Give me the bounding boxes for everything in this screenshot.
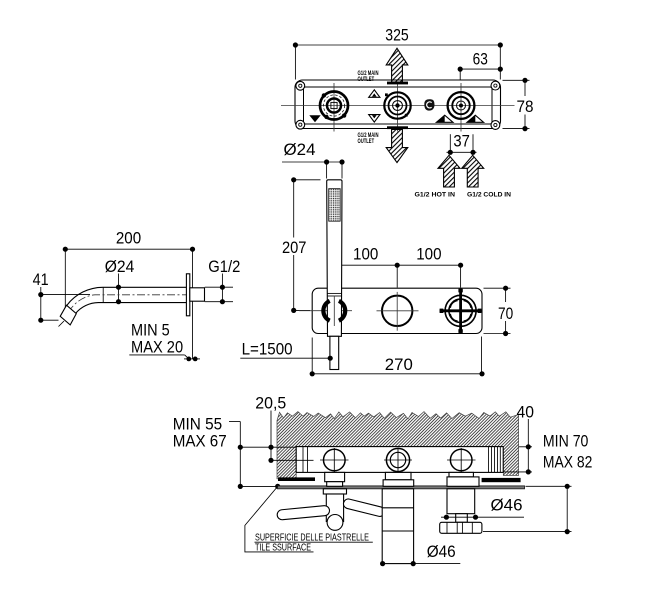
svg-text:41: 41: [33, 270, 49, 289]
valve V2 diverter (top view): [384, 92, 410, 118]
svg-text:270: 270: [385, 355, 413, 374]
svg-text:325: 325: [385, 26, 409, 45]
right stem volume control: [440, 489, 524, 534]
triangle marker V3 right: [467, 115, 484, 122]
spout wall flange: [186, 274, 189, 316]
valve centerline over handle: [333, 296, 335, 327]
svg-text:100: 100: [353, 245, 378, 264]
stem collar center upper: [385, 472, 411, 479]
tile layer left: [278, 477, 315, 481]
valve centerline V2: [397, 83, 399, 132]
corner screw top-right: [491, 81, 500, 90]
svg-text:Ø46: Ø46: [491, 495, 523, 514]
tile surface leader: [245, 486, 314, 552]
dimension 40: [503, 402, 534, 474]
lever arm right: [342, 498, 385, 517]
svg-text:Ø46: Ø46: [427, 542, 456, 561]
left stem lower collar: [323, 489, 346, 494]
dimension 37: [447, 131, 477, 155]
body partition lines: [302, 447, 304, 473]
faceplate outer (top view): [295, 80, 501, 129]
label L=1500: [240, 340, 333, 361]
centerline through holder: [299, 310, 352, 312]
bracket bar above V2: [387, 82, 408, 85]
dimension MIN55 MAX67: [173, 414, 281, 489]
svg-text:G1/2 COLD IN: G1/2 COLD IN: [467, 192, 512, 199]
dimension 325: [293, 26, 503, 80]
center stem hose outlet: [380, 489, 460, 566]
dimension diameter 24 handshower: [282, 140, 345, 178]
corner screw bottom-left: [296, 120, 305, 129]
svg-text:70: 70: [498, 304, 513, 323]
dimension 70: [484, 286, 514, 337]
svg-text:MAX 82: MAX 82: [543, 453, 593, 472]
svg-text:40: 40: [517, 402, 535, 421]
valve centerline V3: [460, 83, 462, 132]
body right end cap lines: [489, 447, 501, 473]
handshower hose: [330, 336, 339, 369]
svg-text:78: 78: [517, 97, 534, 116]
hot inlet arrow: [438, 155, 460, 187]
stem collar right upper: [449, 472, 473, 477]
svg-text:200: 200: [116, 229, 141, 248]
dimension 78: [503, 78, 534, 132]
triangle marker V1: [309, 115, 320, 122]
FRONTVIEW: [240, 140, 513, 376]
wall with hatch: [277, 412, 519, 479]
svg-text:20,5: 20,5: [255, 394, 286, 413]
svg-text:MIN 70: MIN 70: [543, 431, 589, 450]
valve centerline V1: [333, 83, 335, 132]
dimension 63: [458, 50, 503, 80]
dimension 20,5: [240, 394, 313, 463]
dimension G1/2 spout: [205, 257, 241, 305]
svg-text:G1/2 HOT IN: G1/2 HOT IN: [415, 192, 456, 199]
cold inlet arrow: [462, 155, 484, 187]
svg-text:37: 37: [453, 131, 470, 150]
SECTION: [173, 394, 593, 567]
knob depth dimension: [483, 484, 572, 535]
lever arm left: [277, 505, 330, 520]
svg-text:MAX 20: MAX 20: [131, 338, 183, 357]
svg-text:MAX 67: MAX 67: [173, 432, 227, 451]
spout body: [59, 287, 191, 326]
section cartridge 2: [384, 448, 412, 472]
dimension 100 100: [332, 245, 464, 288]
TOPVIEW: [281, 26, 534, 199]
trim plate (section): [278, 486, 525, 489]
dimension 207: [282, 177, 321, 313]
svg-text:G1/2: G1/2: [208, 257, 240, 276]
bracket bar below V2: [387, 126, 408, 129]
stem collar left upper: [325, 472, 345, 481]
svg-text:63: 63: [473, 50, 488, 69]
diverter circle front: [377, 292, 419, 331]
triangle marker V3 left: [436, 115, 453, 122]
SPOUT: [33, 229, 241, 362]
valve body (section): [296, 447, 503, 473]
svg-text:OUTLET: OUTLET: [358, 138, 375, 145]
label G1/2 main outlet bottom: [358, 132, 379, 145]
dimension 270: [310, 337, 485, 377]
svg-text:OUTLET: OUTLET: [358, 76, 375, 83]
svg-text:Ø24: Ø24: [105, 257, 135, 276]
main outlet arrow up: [386, 48, 408, 82]
spout threaded end G1/2: [190, 288, 205, 301]
valve V3 (top view): [448, 92, 475, 119]
section cartridge 1: [320, 448, 349, 472]
dimension 200: [63, 229, 195, 359]
corner screw bottom-right: [491, 121, 500, 130]
svg-text:MIN 55: MIN 55: [173, 414, 223, 433]
triangle marker V2 up: [369, 90, 380, 98]
labels MIN70 MAX82: [543, 431, 593, 471]
svg-text:207: 207: [282, 238, 307, 257]
section cartridge 3: [447, 448, 476, 472]
tile layer right: [482, 478, 521, 482]
handshower handle: [327, 180, 342, 336]
faceplate front view: [312, 288, 482, 333]
label G1/2 main outlet top: [358, 70, 379, 83]
svg-text:L=1500: L=1500: [242, 340, 293, 359]
faceplate inner face: [304, 87, 493, 124]
lever ball: [327, 515, 343, 531]
corner screw top-left: [296, 81, 305, 90]
svg-text:100: 100: [416, 245, 441, 264]
triangle marker V2 down: [369, 115, 380, 123]
svg-text:Ø24: Ø24: [284, 140, 316, 159]
MIN 5 MAX 20 note: [129, 321, 200, 362]
horizontal centerline: [281, 105, 515, 107]
tile surface labels: [255, 532, 373, 554]
valve V1 shower holder (top view): [320, 92, 348, 120]
svg-text:TILE SSURFACE: TILE SSURFACE: [255, 542, 311, 554]
brand logo: [424, 99, 434, 110]
main outlet arrow down: [386, 130, 408, 163]
dimension diameter 24 spout: [105, 257, 135, 305]
dimension 41: [33, 270, 90, 323]
cross handle front: [440, 289, 482, 333]
holder ring arcs: [323, 301, 345, 321]
left stem cylinder: [326, 494, 343, 522]
